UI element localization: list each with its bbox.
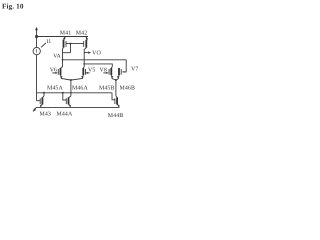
node: gate link junction dot — [70, 43, 72, 45]
node: VO/M46A drain junction dot — [83, 63, 85, 65]
wire: gate bias rail (M43 drain net) — [37, 92, 113, 94]
node: supply junction dot — [35, 35, 38, 38]
ground symbol (arrow down-left) — [34, 107, 36, 110]
wire: VA net corner down to M46B gate with arrow — [123, 60, 126, 72]
svg-text:M46B: M46B — [120, 85, 136, 91]
node: VA junction dot — [62, 59, 64, 61]
svg-text:V8: V8 — [100, 67, 107, 73]
wire: gate drop to M41 drain (diode connection) — [70, 44, 72, 53]
svg-text:M41: M41 — [60, 31, 72, 37]
wire: gate link M41-M42 — [66, 43, 84, 45]
wire: M42 drain down (VO node) — [84, 48, 86, 64]
wire: VA net long horizontal to right — [63, 59, 127, 61]
wire: rail corner down to M44B gate — [112, 93, 115, 100]
wire: ground rail (bottom) — [36, 106, 120, 108]
svg-text:VA: VA — [53, 53, 61, 59]
wire: rail to current source I1 — [36, 37, 38, 48]
node: M44A gate tap dot — [62, 92, 64, 94]
svg-text:M44A: M44A — [57, 111, 73, 117]
svg-text:V7: V7 — [131, 66, 138, 72]
svg-text:M44B: M44B — [108, 113, 124, 119]
svg-text:M45A: M45A — [47, 85, 63, 91]
svg-text:Fig. 10: Fig. 10 — [2, 3, 24, 11]
wire: current source down to M43 gate/drain net — [36, 55, 38, 93]
node: A-pair source / rail crossing dot — [70, 92, 72, 94]
svg-text:M46A: M46A — [72, 85, 88, 91]
node: M43 drain dot — [43, 92, 45, 94]
wire: top rail — [37, 36, 89, 38]
wire: M41 drain down to VA node — [63, 48, 64, 60]
svg-text:VO: VO — [92, 51, 101, 57]
svg-text:I1: I1 — [46, 39, 51, 45]
current source I1 — [33, 47, 40, 54]
svg-text:V5: V5 — [88, 67, 95, 73]
svg-text:M43: M43 — [40, 111, 52, 117]
wire: VO net horizontal to M45B drain — [84, 64, 112, 68]
supply arrow (current input at top left) — [36, 29, 38, 36]
label I1 with leader line — [41, 43, 46, 47]
svg-text:M45B: M45B — [99, 85, 115, 91]
wire: common source B pair down to M44B — [115, 79, 117, 81]
wire: common source A pair down to M44A — [70, 79, 72, 81]
wire and arrow: VO output — [84, 52, 89, 54]
svg-text:M42: M42 — [76, 31, 88, 37]
